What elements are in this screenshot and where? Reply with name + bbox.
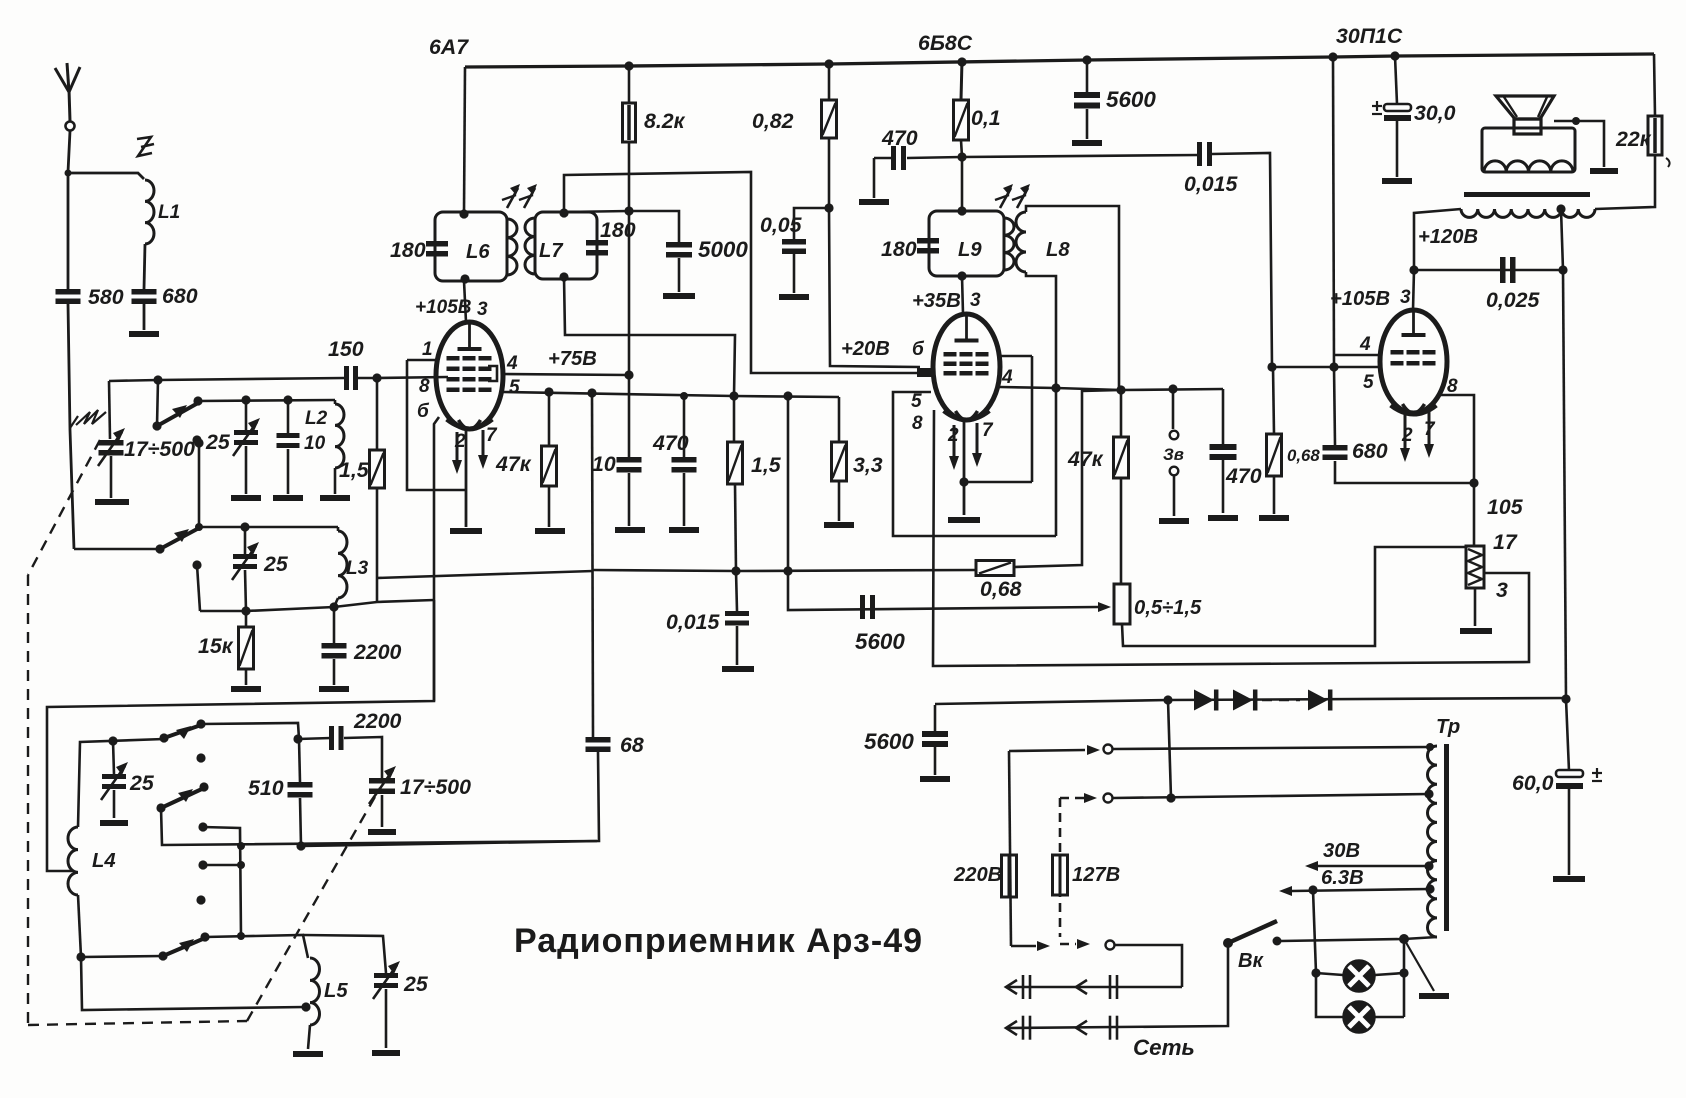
svg-text:25: 25 (263, 552, 289, 576)
svg-text:L6: L6 (466, 241, 490, 263)
svg-text:8: 8 (419, 376, 430, 397)
svg-text:5000: 5000 (698, 237, 748, 262)
svg-text:L1: L1 (158, 202, 180, 223)
svg-text:0,68: 0,68 (1287, 446, 1320, 465)
svg-text:L4: L4 (92, 850, 116, 872)
svg-text:220В: 220В (953, 864, 1002, 886)
svg-text:180: 180 (881, 237, 917, 261)
svg-text:2200: 2200 (353, 709, 402, 733)
svg-text:180: 180 (600, 218, 636, 242)
svg-text:30,0: 30,0 (1414, 101, 1456, 125)
svg-text:30П1С: 30П1С (1336, 24, 1403, 48)
svg-text:Зв: Зв (1163, 445, 1184, 464)
svg-text:6Б8С: 6Б8С (918, 31, 973, 55)
svg-text:б: б (417, 401, 430, 422)
svg-text:680: 680 (162, 284, 198, 308)
svg-text:L7: L7 (539, 240, 564, 262)
svg-text:510: 510 (248, 776, 284, 800)
svg-text:0,015: 0,015 (1184, 172, 1238, 196)
svg-text:3: 3 (477, 299, 488, 320)
svg-text:60,0: 60,0 (1512, 771, 1554, 795)
svg-text:+105В: +105В (1330, 288, 1390, 310)
svg-text:0,82: 0,82 (752, 109, 794, 133)
svg-text:25: 25 (129, 771, 155, 795)
svg-text:17÷500: 17÷500 (400, 775, 471, 799)
svg-text:680: 680 (1352, 439, 1388, 463)
svg-text:Радиоприемник Арз-49: Радиоприемник Арз-49 (514, 922, 923, 960)
svg-text:22к: 22к (1615, 127, 1652, 151)
svg-text:4: 4 (506, 353, 518, 374)
svg-text:470: 470 (881, 126, 918, 150)
svg-text:+120В: +120В (1418, 226, 1478, 248)
svg-text:5: 5 (1363, 372, 1374, 393)
svg-text:L3: L3 (346, 558, 369, 579)
svg-text:1,5: 1,5 (339, 458, 370, 482)
svg-text:+20В: +20В (841, 338, 890, 360)
svg-text:0,025: 0,025 (1486, 288, 1540, 312)
svg-text:105: 105 (1487, 495, 1524, 519)
svg-text:25: 25 (205, 430, 231, 454)
svg-text:Тр: Тр (1436, 716, 1460, 738)
svg-text:7: 7 (486, 425, 498, 446)
svg-text:6.3В: 6.3В (1321, 867, 1364, 889)
svg-text:8: 8 (1447, 376, 1458, 397)
svg-text:0,68: 0,68 (980, 577, 1022, 601)
svg-text:127В: 127В (1072, 864, 1120, 886)
svg-text:10: 10 (592, 452, 616, 476)
svg-text:17: 17 (1493, 530, 1518, 554)
svg-text:L8: L8 (1046, 239, 1070, 261)
svg-text:4: 4 (1359, 334, 1371, 355)
svg-text:L9: L9 (958, 239, 982, 261)
svg-text:470: 470 (652, 431, 689, 455)
svg-text:0,05: 0,05 (760, 213, 803, 237)
svg-text:30В: 30В (1323, 840, 1360, 862)
svg-text:5: 5 (911, 391, 922, 412)
svg-text:+105В: +105В (415, 297, 472, 318)
svg-text:1: 1 (422, 339, 433, 360)
svg-text:470: 470 (1225, 464, 1262, 488)
svg-text:5600: 5600 (1106, 87, 1156, 112)
svg-text:б: б (912, 339, 925, 360)
svg-text:68: 68 (620, 733, 644, 757)
svg-text:5600: 5600 (864, 729, 914, 754)
svg-text:25: 25 (403, 972, 429, 996)
svg-text:580: 580 (88, 285, 124, 309)
svg-text:7: 7 (982, 420, 994, 441)
svg-text:0,015: 0,015 (666, 610, 720, 634)
svg-text:17÷500: 17÷500 (124, 437, 195, 461)
svg-text:3: 3 (970, 290, 981, 311)
svg-text:2200: 2200 (353, 640, 402, 664)
svg-text:150: 150 (328, 337, 364, 361)
svg-text:2: 2 (1401, 425, 1413, 446)
svg-text:5: 5 (509, 377, 520, 398)
svg-text:180: 180 (390, 238, 426, 262)
svg-text:L5: L5 (324, 980, 348, 1002)
svg-text:Вк: Вк (1238, 950, 1265, 972)
svg-text:0,1: 0,1 (971, 106, 1001, 130)
svg-text:3,3: 3,3 (853, 453, 883, 477)
svg-text:10: 10 (304, 433, 326, 454)
svg-text:47к: 47к (1067, 447, 1104, 471)
svg-text:6А7: 6А7 (429, 35, 469, 59)
svg-text:8: 8 (912, 413, 923, 434)
svg-text:47к: 47к (495, 452, 532, 476)
svg-text:0,5÷1,5: 0,5÷1,5 (1134, 597, 1202, 619)
svg-text:4: 4 (1001, 367, 1013, 388)
svg-text:3: 3 (1400, 287, 1411, 308)
svg-text:+35В: +35В (912, 290, 961, 312)
svg-text:7: 7 (1424, 419, 1436, 440)
svg-text:15к: 15к (198, 634, 234, 658)
svg-text:5600: 5600 (855, 629, 905, 654)
svg-text:+75В: +75В (548, 348, 597, 370)
svg-text:3: 3 (1496, 578, 1508, 602)
svg-text:Сеть: Сеть (1133, 1035, 1195, 1060)
svg-text:8.2к: 8.2к (644, 109, 686, 133)
svg-text:1,5: 1,5 (751, 453, 782, 477)
svg-text:L2: L2 (305, 408, 328, 429)
